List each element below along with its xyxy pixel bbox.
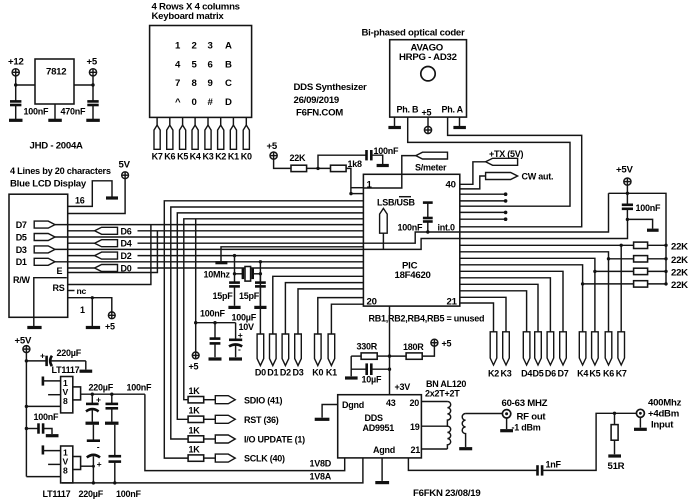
regulator U2 7812 [35, 59, 74, 104]
svg-text:4 Lines by 20 characters: 4 Lines by 20 characters [10, 166, 111, 176]
ground 15pF left [228, 306, 240, 309]
wire 7812 gnd [54, 104, 56, 119]
connector S/meter [415, 152, 448, 172]
svg-text:Blue LCD Display: Blue LCD Display [10, 179, 87, 190]
connector pin D4 right [521, 332, 532, 379]
svg-text:K1: K1 [228, 151, 239, 161]
svg-text:D5: D5 [16, 232, 27, 242]
svg-text:RST (36): RST (36) [244, 415, 279, 425]
svg-text:DDS: DDS [365, 413, 383, 423]
svg-text:K5: K5 [177, 151, 188, 161]
LCD pin nc stub [68, 286, 87, 296]
resistor 1K RST [188, 406, 215, 423]
wire DDS out to 1nF [408, 458, 537, 471]
svg-text:D2: D2 [280, 368, 291, 378]
wire PIC Vss to gnd [221, 247, 363, 261]
wire 100nF right to gnd [627, 219, 652, 228]
wire CW aut to PIC [460, 176, 486, 189]
node +5 DDS [431, 339, 452, 349]
connector pin K3 right [500, 332, 511, 379]
svg-text:RB1,RB2,RB4,RB5 = unused: RB1,RB2,RB4,RB5 = unused [369, 314, 485, 324]
wire D3 to PIC [298, 289, 363, 334]
svg-text:16: 16 [75, 196, 85, 206]
optical coder U4 AVAGO HRPG-AD32 [390, 40, 467, 118]
svg-text:K6: K6 [603, 369, 614, 379]
svg-text:-: - [238, 344, 241, 354]
svg-text:K4: K4 [577, 369, 588, 379]
svg-text:K5: K5 [589, 369, 600, 379]
stub RB1 unused [460, 192, 507, 196]
wire D5 bus [55, 236, 363, 238]
resistor 1K SCLK [188, 444, 215, 461]
svg-text:RS: RS [53, 283, 65, 293]
svg-text:E: E [57, 266, 63, 276]
svg-text:51R: 51R [608, 461, 625, 472]
svg-text:9: 9 [208, 78, 213, 89]
svg-text:RF out: RF out [517, 412, 547, 423]
svg-text:15pF: 15pF [239, 291, 260, 301]
wire 220uF in gnd [85, 361, 87, 370]
svg-text:1nF: 1nF [546, 460, 562, 470]
wire junction up to 100nF [318, 155, 367, 168]
capacitor 100nF 1V8D [106, 383, 153, 422]
svg-text:470nF: 470nF [61, 107, 87, 117]
svg-text:SDIO (41): SDIO (41) [244, 395, 283, 405]
svg-text:R/W: R/W [13, 275, 31, 285]
svg-text:D4: D4 [121, 239, 132, 249]
wire PIC to DAC bias [388, 306, 391, 395]
svg-text:+5: +5 [422, 108, 432, 118]
keyboard pin K5 [177, 117, 188, 161]
wire D4 internal jog [363, 232, 460, 243]
svg-text:C: C [225, 78, 232, 89]
svg-text:K3: K3 [500, 369, 511, 379]
ground 100nF 1V8D [105, 422, 119, 425]
ground LCD [86, 326, 100, 329]
connector pin D5 right [532, 332, 543, 379]
connector RST [215, 415, 278, 425]
svg-text:21: 21 [411, 445, 421, 455]
wire Ph.A to PIC [448, 117, 582, 227]
node +5 LCD [105, 312, 115, 332]
ground 100nF mid [46, 434, 59, 437]
ground 400Mhz input [634, 418, 647, 430]
wire SDIO net from PIC [184, 219, 364, 400]
node +5 filter [189, 219, 200, 372]
ground 220uF input [80, 370, 93, 373]
wire D7 net right [460, 271, 563, 332]
svg-text:+: + [238, 330, 243, 340]
wire 1nF to input node [542, 413, 636, 470]
wire E to PIC [68, 231, 158, 273]
svg-text:+12: +12 [8, 57, 24, 68]
LCD data connector D7 [16, 220, 55, 230]
label DDS Synthesizer [294, 82, 368, 119]
capacitor 100nF filter [200, 309, 226, 358]
svg-text:Dgnd: Dgnd [342, 400, 364, 410]
connector pin D0 [255, 334, 266, 378]
svg-text:+5: +5 [442, 339, 452, 349]
LCD data connector D1 [16, 257, 55, 267]
svg-text:K0: K0 [241, 151, 252, 161]
ground pin16 [106, 196, 118, 199]
svg-text:+5: +5 [267, 141, 278, 152]
svg-text:D5: D5 [532, 369, 543, 379]
svg-text:K2: K2 [488, 369, 499, 379]
svg-text:HRPG - AD32: HRPG - AD32 [399, 52, 457, 63]
ground cap input [9, 119, 23, 122]
svg-text:100nF: 100nF [127, 383, 153, 393]
svg-text:21: 21 [447, 297, 458, 308]
wire +5 to 22K [274, 159, 291, 168]
capacitor 220uF 1V8A [87, 425, 102, 483]
svg-text:10Mhz: 10Mhz [204, 270, 231, 280]
connector pin K7 right [616, 332, 627, 379]
svg-text:19: 19 [410, 422, 420, 432]
svg-text:2: 2 [192, 41, 197, 52]
svg-text:8: 8 [63, 396, 68, 406]
svg-text:LT1117: LT1117 [52, 365, 80, 375]
svg-text:22K: 22K [671, 267, 688, 278]
svg-text:10µF: 10µF [362, 374, 382, 384]
transformer T1 secondary [462, 414, 465, 448]
svg-text:1k8: 1k8 [348, 159, 363, 169]
wire 22K to 1k8 [307, 167, 331, 170]
LCD data connector D3 [16, 245, 55, 255]
svg-text:100nF: 100nF [24, 107, 50, 117]
svg-text:K2: K2 [215, 151, 226, 161]
wire 7812 output [74, 76, 95, 101]
svg-text:15pF: 15pF [213, 291, 234, 301]
pin LT1117a mid [48, 394, 61, 396]
svg-text:D3: D3 [16, 245, 27, 255]
wire 1k8 to PIC pin1 [346, 168, 363, 195]
node 5V LCD [119, 160, 131, 179]
svg-text:K7: K7 [152, 151, 163, 161]
svg-text:CW aut.: CW aut. [522, 172, 554, 182]
svg-text:^: ^ [175, 97, 181, 108]
wire K7 net [460, 244, 634, 332]
svg-text:3: 3 [208, 41, 213, 52]
wire K2 net right [460, 303, 494, 332]
connector CW aut. [486, 172, 554, 182]
svg-text:5V: 5V [119, 160, 131, 171]
wire LCD pin1 to +5 [68, 298, 112, 312]
svg-text:100nF: 100nF [200, 309, 226, 319]
connector pin K4 right [577, 332, 588, 379]
resistor 1K SDIO [188, 386, 215, 403]
svg-text:+5V: +5V [15, 336, 32, 347]
svg-text:K3: K3 [202, 151, 213, 161]
svg-text:100nF: 100nF [34, 412, 60, 422]
wire D2 to PIC [285, 283, 363, 334]
microcontroller U1 PIC 18F4620 [363, 174, 459, 307]
wire K1 to PIC [331, 304, 363, 334]
svg-text:LT1117: LT1117 [43, 489, 71, 499]
svg-text:7: 7 [175, 78, 180, 89]
svg-text:SCLK (40): SCLK (40) [244, 454, 285, 464]
LCD data connector D5 [16, 232, 55, 242]
svg-text:Bi-phased optical coder: Bi-phased optical coder [362, 28, 466, 39]
wire D3 internal jog [363, 239, 460, 250]
wire Agnd [381, 458, 383, 481]
wire D0 bus [138, 267, 364, 269]
ground cap 470nF [86, 119, 100, 122]
capacitor 100nF input [10, 101, 49, 119]
svg-text:+4dBm: +4dBm [648, 409, 679, 420]
svg-text:LSB/USB: LSB/USB [377, 197, 416, 207]
LCD data connector D0 [68, 264, 132, 274]
node +5V LT1117 [15, 336, 32, 353]
svg-text:AD9951: AD9951 [363, 423, 395, 433]
svg-text:8: 8 [63, 465, 68, 475]
wire D6 bus [138, 230, 364, 232]
svg-text:-1 dBm: -1 dBm [512, 423, 541, 433]
svg-text:DDS Synthesizer: DDS Synthesizer [294, 82, 368, 93]
svg-text:+: + [97, 459, 102, 469]
LCD data connector D6 [68, 226, 132, 236]
svg-text:+3V: +3V [395, 382, 411, 392]
label BN AL120 [425, 379, 466, 399]
crystal X1 10MHz [235, 267, 261, 282]
svg-text:K7: K7 [616, 369, 627, 379]
ground Dgnd [315, 418, 330, 421]
capacitor 220uF input [26, 348, 85, 366]
stub RB2 unused [460, 199, 507, 203]
resistor 1K I/O UPDATE [188, 425, 215, 442]
connector pin K5 right [589, 332, 600, 379]
connector SCLK [215, 454, 285, 464]
pin LT1117b adj [43, 445, 61, 454]
keyboard pin K4 [190, 117, 201, 161]
svg-text:22K: 22K [290, 153, 307, 163]
wire D4 net right [460, 291, 527, 332]
ground 51R [608, 454, 621, 457]
wire crystal left to PIC OSC1 [233, 256, 236, 276]
svg-text:D7: D7 [557, 369, 568, 379]
wire K5 net [460, 258, 634, 332]
LCD data connector D4 [68, 239, 132, 249]
ground 330R [345, 376, 358, 379]
capacitor 100nF int0 [423, 203, 433, 234]
svg-text:43: 43 [386, 398, 396, 408]
pin LT1117a in [26, 405, 60, 407]
svg-text:I/O UPDATE (1): I/O UPDATE (1) [244, 435, 305, 445]
ground 100nF debounce [377, 164, 389, 167]
svg-text:1K: 1K [189, 406, 201, 416]
node +5V right [616, 165, 633, 186]
svg-text:1V8D: 1V8D [310, 459, 332, 469]
wire LCD gnd stub [91, 298, 93, 326]
wire DDS pin21 [421, 448, 447, 450]
regulator LT1117 1V8 digital [61, 377, 81, 413]
capacitor 100uF 10V [229, 313, 257, 358]
svg-text:D7: D7 [16, 220, 27, 230]
label LSB/USB [377, 197, 416, 208]
svg-text:1V8A: 1V8A [310, 472, 332, 482]
svg-text:220µF: 220µF [79, 489, 104, 499]
resistor 330R [351, 341, 389, 359]
ground 100nF filter [209, 357, 222, 360]
svg-text:+5: +5 [87, 57, 98, 68]
svg-text:220µF: 220µF [57, 348, 82, 358]
wire DDS pin19 [421, 425, 447, 427]
capacitor 10uF [351, 356, 389, 384]
svg-text:D6: D6 [545, 369, 556, 379]
ground coder right [453, 117, 466, 127]
svg-text:D6: D6 [121, 226, 132, 236]
keyboard pin K7 [152, 117, 163, 161]
wire +12 input [14, 76, 35, 101]
svg-text:20: 20 [410, 398, 420, 408]
svg-text:F6FN.COM: F6FN.COM [296, 108, 343, 119]
connector pin D3 [292, 334, 303, 378]
svg-text:100nF: 100nF [636, 203, 662, 213]
wire SCLK net from PIC [164, 201, 363, 458]
svg-text:+5V: +5V [616, 165, 633, 176]
ground 7812 [48, 119, 62, 122]
svg-text:A: A [225, 41, 232, 52]
ground Agnd [375, 481, 389, 484]
svg-text:Ph. A: Ph. A [442, 105, 464, 115]
DDS U3 AD9951 [338, 395, 422, 458]
connector RF out [502, 398, 548, 433]
wire D6 net right [460, 278, 550, 332]
svg-text:22K: 22K [671, 280, 688, 291]
wire D4 bus through PIC to +5 node [138, 193, 609, 243]
connector 400Mhz input [636, 398, 681, 431]
transformer T1 primary [447, 402, 450, 450]
svg-text:D: D [225, 97, 232, 108]
svg-text:100nF: 100nF [116, 489, 142, 499]
keyboard matrix KB1 [150, 2, 252, 118]
capacitor 100nF debounce [367, 146, 400, 160]
wire crystal right to PIC OSC2 [259, 262, 262, 276]
svg-text:+5: +5 [189, 362, 199, 372]
wire R/W to gnd [34, 278, 67, 326]
svg-text:D3: D3 [292, 368, 303, 378]
svg-text:D4: D4 [521, 369, 532, 379]
node junction 51R [613, 412, 616, 415]
stub RB4 unused [460, 211, 507, 215]
ground R/W [27, 326, 41, 329]
wire RS to PIC [68, 225, 151, 285]
svg-text:K6: K6 [164, 151, 175, 161]
resistor 22K K6 [634, 245, 689, 265]
svg-text:S/meter: S/meter [415, 163, 447, 173]
wire RST net from PIC [177, 213, 363, 419]
connector pin D1 [267, 334, 278, 378]
ground 100nF right [647, 229, 659, 232]
svg-text:22K: 22K [671, 241, 688, 252]
svg-text:40: 40 [446, 180, 456, 191]
connector pin K2 right [488, 332, 499, 379]
resistor 22K K7 [634, 241, 689, 252]
keyboard pin K2 [215, 117, 226, 161]
regulator LT1117 1V8 analog [61, 446, 81, 483]
ground 15pF right [254, 306, 266, 309]
svg-text:B: B [225, 59, 232, 70]
svg-text:220µF: 220µF [89, 383, 114, 393]
wire +5V rail down [25, 353, 28, 477]
svg-text:330R: 330R [357, 341, 378, 351]
svg-text:D1: D1 [16, 257, 27, 267]
svg-text:-: - [97, 442, 100, 452]
svg-text:6: 6 [208, 59, 213, 70]
svg-text:K1: K1 [326, 368, 337, 378]
LCD data connector D2 [68, 251, 132, 261]
connector +TX (5V) [486, 149, 524, 165]
connector LSB/USB jumper [380, 208, 388, 249]
resistor 22K K5 [634, 259, 689, 279]
connector pin K0 [312, 334, 323, 378]
pin LT1117b mid [48, 463, 61, 465]
wire K4 net [460, 265, 634, 332]
wire 1V8A rail [62, 458, 363, 485]
resistor 51R [608, 413, 625, 472]
ground Vss [215, 261, 227, 264]
wire DDS pin20 [421, 401, 447, 403]
wire 5V to LCD [68, 179, 125, 214]
svg-text:2x2T+2T: 2x2T+2T [425, 389, 460, 399]
ground secondary [459, 447, 472, 450]
wire K3 net right [460, 297, 506, 332]
ground 100uF [229, 357, 242, 360]
wire +5 filter row [196, 321, 236, 324]
wire D0 to PIC [259, 274, 261, 334]
connector pin D6 right [545, 332, 556, 379]
capacitor 100nF 1V8A [109, 425, 122, 483]
connector I/O UPDATE [215, 435, 305, 445]
ground coder left [388, 117, 401, 127]
svg-text:K4: K4 [190, 151, 201, 161]
svg-text:Keyboard matrix: Keyboard matrix [152, 11, 225, 22]
svg-text:D0: D0 [255, 368, 266, 378]
connector pin K6 right [603, 332, 614, 379]
wire D5 net right [460, 284, 538, 332]
node +5 keypad pullup [267, 141, 278, 159]
wire secondary to RF out [466, 413, 503, 415]
svg-text:D1: D1 [267, 368, 278, 378]
svg-text:1: 1 [80, 305, 85, 315]
LCD display titles [10, 166, 111, 190]
capacitor 15pF right [239, 274, 266, 306]
wire 100nF to gnd [371, 155, 382, 164]
svg-text:180R: 180R [403, 342, 424, 352]
svg-text:400Mhz: 400Mhz [648, 398, 682, 409]
svg-text:100nF: 100nF [398, 223, 424, 233]
capacitor 15pF left [213, 274, 240, 306]
svg-text:18F4620: 18F4620 [395, 270, 431, 281]
node +12 [8, 57, 24, 76]
svg-text:K0: K0 [312, 368, 323, 378]
wire +TX to PIC [460, 162, 486, 185]
svg-text:+: + [40, 351, 45, 361]
wire D3 bus through PIC to DDS cap node [55, 219, 628, 249]
wire 1V8D rail [145, 394, 345, 470]
wire D7 bus [55, 224, 363, 226]
keyboard pin K6 [164, 117, 175, 161]
svg-text:1K: 1K [189, 386, 201, 396]
svg-text:+5: +5 [105, 322, 115, 332]
capacitor 1nF [538, 460, 562, 476]
node +5 7812 out [87, 57, 98, 76]
resistor 180R [390, 342, 435, 359]
wire Ph.B to PIC [408, 117, 570, 206]
wire S/meter internal [363, 174, 401, 188]
keyboard pin K1 [228, 117, 239, 161]
wire I/O update net from PIC [171, 207, 364, 439]
